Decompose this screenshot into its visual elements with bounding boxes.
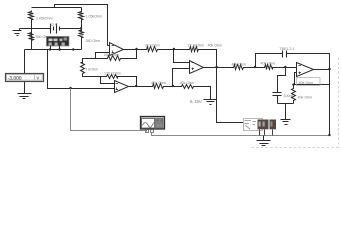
resistor R11 ground leg	[181, 85, 195, 89]
ground under voltmeter	[18, 94, 32, 99]
op-amp U3	[190, 61, 204, 74]
node U4 output	[328, 68, 330, 70]
wire U1 inputs	[96, 46, 110, 59]
wire bridge mid rail	[32, 28, 82, 30]
wire R5 to U1 output	[123, 50, 137, 59]
resistor R10 U3 feedback	[189, 47, 200, 52]
capacitor C1	[283, 51, 287, 58]
resistor R12	[233, 65, 245, 70]
wire R14 top	[292, 83, 294, 85]
sensor box U5	[47, 37, 69, 46]
wire Rg top	[83, 59, 96, 62]
svg-text:-3.000: -3.000	[8, 76, 22, 82]
wire U1 output row	[124, 49, 174, 51]
op-amp U4	[297, 63, 314, 77]
svg-text:40k Ohm: 40k Ohm	[232, 62, 247, 66]
node filter mid	[284, 66, 286, 68]
resistor R9	[152, 84, 165, 89]
battery V1	[49, 24, 63, 34]
wire cap to output	[287, 54, 330, 70]
wire Rg bottom	[83, 75, 101, 77]
node scope tap	[69, 87, 71, 89]
node pin3	[72, 48, 74, 50]
svg-text:TBE1.2:1: TBE1.2:1	[279, 47, 294, 51]
wire voltmeter to ground	[24, 82, 26, 94]
svg-text:350 Ohm: 350 Ohm	[86, 39, 101, 43]
node U1 output	[135, 48, 137, 50]
svg-text:40k Ohm: 40k Ohm	[298, 96, 313, 100]
wire bridge to U2 + input	[48, 50, 115, 89]
node U2 output	[135, 85, 137, 87]
wire bridge top rail	[32, 7, 82, 9]
transistor Q2	[270, 120, 277, 136]
voltmeter XMM1	[6, 74, 44, 83]
label R15 boxed	[297, 78, 321, 86]
svg-text:22 kOhm: 22 kOhm	[145, 44, 160, 48]
node pin2	[58, 48, 60, 50]
wire U3 minus branch	[174, 50, 190, 63]
wire top tap to U1	[55, 5, 108, 46]
node bottom right	[328, 134, 330, 136]
resistor R1	[29, 11, 34, 21]
wire R7 to U2 output	[120, 77, 137, 87]
wire bridge bottom rail	[25, 49, 82, 51]
wire scope channel A	[71, 89, 147, 132]
svg-text:1.05kOhm: 1.05kOhm	[86, 15, 103, 19]
wire output down right side	[329, 70, 331, 136]
wire R10 to U3 output	[200, 50, 217, 68]
svg-text:40k Ohm: 40k Ohm	[208, 44, 223, 48]
wire cap riser	[256, 54, 283, 68]
svg-text:40k Ohm: 40k Ohm	[151, 81, 166, 85]
wire node to C2	[278, 68, 286, 93]
wire U2 output row	[129, 86, 173, 88]
svg-text:22.1kOhm: 22.1kOhm	[188, 44, 205, 48]
wire R14 top	[293, 85, 295, 88]
wire C2 to rail	[277, 96, 279, 104]
node pin1	[49, 48, 51, 50]
transistor Q1	[258, 120, 269, 136]
ground G1	[204, 100, 217, 105]
wire sensor pins	[51, 46, 60, 50]
connector box J1	[244, 119, 263, 131]
wire bridge left mid	[20, 21, 32, 50]
ground bridge left	[13, 31, 22, 36]
node U3 plus net	[172, 85, 174, 87]
wire filter bottom rail	[278, 102, 294, 120]
wire bridge right leg	[81, 8, 83, 50]
wire R11 to ground	[195, 87, 211, 100]
capacitor C2	[273, 93, 282, 96]
wire to U4 plus	[274, 67, 297, 69]
resistor R2	[29, 33, 34, 42]
wire scope channel B	[152, 133, 330, 136]
resistor R4	[79, 30, 84, 39]
resistor R14 vertical	[292, 88, 296, 102]
svg-text:1 kOhm: 1 kOhm	[86, 67, 99, 71]
wire U4 output	[314, 69, 330, 71]
oscilloscope XSC1	[141, 117, 165, 133]
svg-text:40k Ohm: 40k Ohm	[180, 81, 195, 85]
node bridge right mid	[80, 27, 82, 29]
svg-text:40k Ohm: 40k Ohm	[261, 61, 276, 65]
svg-text:6. 15V: 6. 15V	[190, 99, 202, 104]
resistor R6 Rg	[81, 62, 85, 75]
node U3 minus net	[173, 48, 175, 50]
resistor R3	[79, 11, 84, 21]
wire U4 fb path	[295, 70, 330, 85]
svg-text:12 V: 12 V	[50, 23, 58, 27]
resistor R7 U2 feedback	[106, 75, 120, 79]
wire U3 output to connector	[217, 68, 244, 123]
op-amp U2	[115, 81, 129, 93]
resistor R5 U1 feedback	[107, 56, 123, 61]
wire R12 to filter	[245, 67, 264, 69]
wire U2 - input loop	[101, 77, 115, 84]
ground G2	[281, 120, 291, 125]
wire to voltmeter	[24, 50, 26, 74]
svg-text:40k Ohm: 40k Ohm	[299, 81, 314, 85]
wire U3 plus branch	[173, 69, 190, 87]
selection dashed rectangle	[252, 58, 339, 148]
op-amp U1	[110, 43, 124, 56]
node U3 output	[215, 66, 217, 68]
svg-text:1.05kOhm: 1.05kOhm	[36, 17, 53, 21]
resistor R8	[146, 47, 159, 52]
wire U3 output	[204, 67, 233, 69]
resistor R13	[264, 65, 274, 70]
ground G3	[257, 136, 271, 146]
wire cap feedback riser	[254, 66, 256, 68]
svg-text:25 kOhm: 25 kOhm	[104, 53, 119, 57]
svg-text:176 kOhm: 176 kOhm	[104, 72, 121, 76]
